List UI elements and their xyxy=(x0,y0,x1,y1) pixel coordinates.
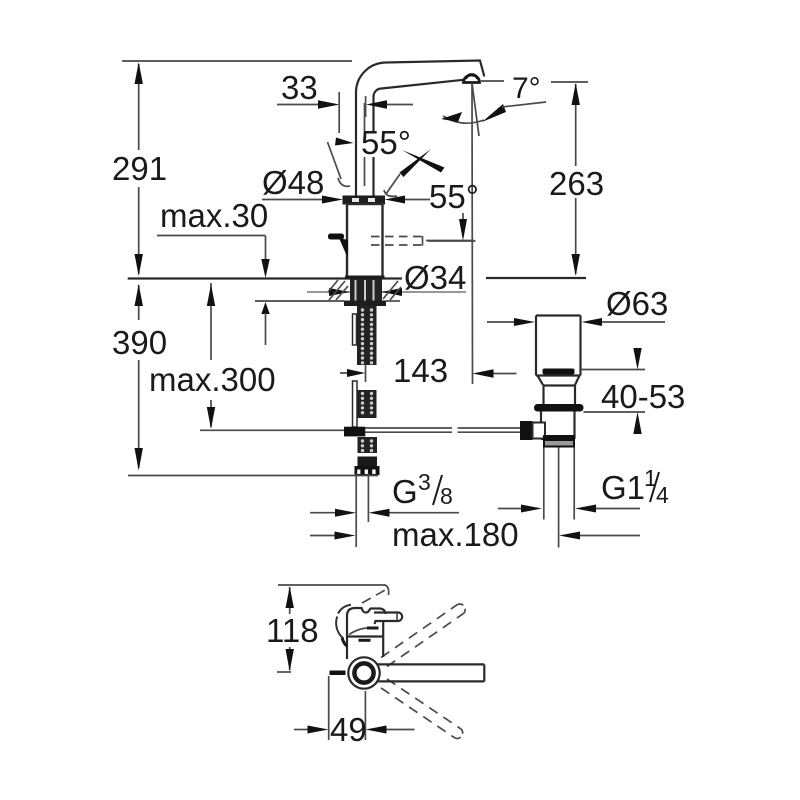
topview center line xyxy=(277,671,291,673)
dim G1 1/4 xyxy=(498,505,640,513)
shank end block xyxy=(355,457,380,476)
body bottom bar xyxy=(345,276,385,280)
svg-text:143: 143 xyxy=(393,352,448,389)
dim 55deg upper xyxy=(328,138,354,187)
svg-text:390: 390 xyxy=(112,324,167,361)
svg-text:max.300: max.300 xyxy=(149,361,276,398)
topview dashed swing bars xyxy=(381,604,465,738)
svg-text:40-53: 40-53 xyxy=(601,378,685,415)
bottom reference line xyxy=(128,475,378,477)
topview dashed lever up xyxy=(362,589,387,603)
dim 55deg lower cross arrows xyxy=(384,149,474,241)
dim max30 xyxy=(157,236,270,346)
svg-text:263: 263 xyxy=(549,165,604,202)
svg-text:55°: 55° xyxy=(361,124,411,161)
svg-text:118: 118 xyxy=(266,612,319,649)
drain upper cylinder xyxy=(536,316,581,376)
drain body xyxy=(541,412,575,440)
threaded shank lower xyxy=(358,437,378,453)
dim 118 xyxy=(286,587,294,672)
drain nut xyxy=(543,435,575,448)
dim max300 xyxy=(207,283,215,429)
dim G1 1/4 label xyxy=(601,465,669,508)
svg-text:8: 8 xyxy=(440,483,453,509)
topview outlet ring xyxy=(348,657,379,688)
dim 143 xyxy=(340,369,517,378)
pop-up rod xyxy=(200,427,522,437)
drain flange taper xyxy=(536,376,581,386)
deck line xyxy=(128,277,586,280)
dim G3/8 xyxy=(310,509,459,517)
handle lever xyxy=(328,234,348,257)
mounting nut xyxy=(344,301,386,307)
dim 49 xyxy=(294,676,415,740)
drain rod port xyxy=(520,421,545,440)
drain neck xyxy=(544,386,576,405)
dim 55deg upper label xyxy=(359,131,414,157)
svg-text:49: 49 xyxy=(330,711,367,748)
svg-text:Ø34: Ø34 xyxy=(404,259,466,296)
dim 263 xyxy=(572,83,580,276)
drain o-ring xyxy=(534,404,584,412)
dim 34 xyxy=(307,288,466,296)
shank through deck xyxy=(350,279,382,302)
svg-text:max.180: max.180 xyxy=(392,516,519,553)
topview rod stub xyxy=(330,671,346,676)
body flange xyxy=(343,196,386,205)
supply extension lines xyxy=(356,474,368,547)
top reference line xyxy=(122,60,352,62)
dim 63 xyxy=(487,318,665,326)
svg-text:7°: 7° xyxy=(512,72,541,105)
svg-text:G1: G1 xyxy=(601,469,645,506)
drain plug cap xyxy=(543,369,575,375)
svg-text:G: G xyxy=(392,473,418,510)
threaded shank upper xyxy=(353,306,377,382)
dim 48 xyxy=(262,196,430,204)
svg-text:291: 291 xyxy=(112,150,167,187)
dim max180 xyxy=(310,532,640,540)
svg-text:Ø63: Ø63 xyxy=(606,285,668,322)
dim 40-53 xyxy=(581,348,646,434)
dim 291 line xyxy=(135,62,143,276)
dashed handle position xyxy=(371,236,476,246)
svg-text:Ø48: Ø48 xyxy=(262,164,324,201)
svg-text:55°: 55° xyxy=(429,178,479,215)
dim G3/8 label xyxy=(392,469,453,510)
dim 7deg lines xyxy=(441,81,588,384)
topview spout bar xyxy=(374,664,484,681)
topview top line xyxy=(278,585,389,595)
dim 33 xyxy=(277,92,413,133)
topview body xyxy=(336,605,385,659)
svg-text:3: 3 xyxy=(418,469,431,495)
svg-text:33: 33 xyxy=(281,69,318,106)
spout outline xyxy=(356,61,484,197)
threaded shank middle xyxy=(353,381,377,427)
faucet body xyxy=(347,204,383,277)
deck cross-section xyxy=(255,280,401,301)
dim 390 xyxy=(135,284,143,471)
drain tailpiece xyxy=(544,448,574,548)
svg-text:max.30: max.30 xyxy=(160,197,268,234)
topview lever xyxy=(374,613,402,625)
aerator xyxy=(464,74,480,82)
svg-text:4: 4 xyxy=(656,482,669,508)
